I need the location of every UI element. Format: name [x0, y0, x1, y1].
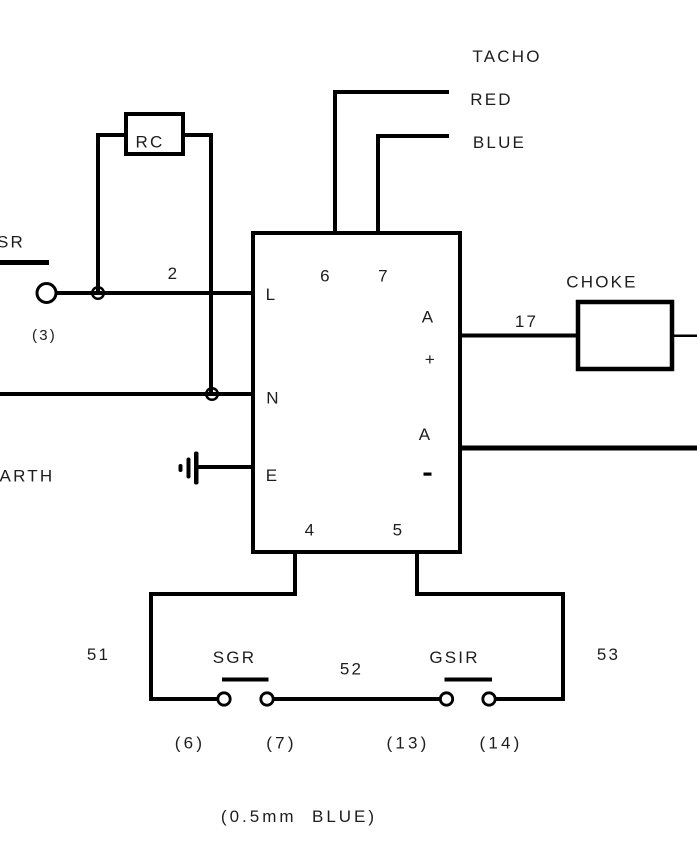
- svg-text:52: 52: [340, 660, 363, 679]
- svg-text:CHOKE: CHOKE: [566, 273, 637, 292]
- svg-text:17: 17: [515, 312, 538, 331]
- svg-text:5: 5: [393, 521, 405, 540]
- svg-text:(0.5mm BLUE): (0.5mm BLUE): [221, 807, 377, 826]
- svg-text:(7): (7): [266, 734, 296, 753]
- svg-text:BLUE: BLUE: [473, 133, 526, 152]
- svg-text:51: 51: [87, 645, 110, 664]
- svg-text:(14): (14): [479, 734, 522, 753]
- svg-text:TACHO: TACHO: [472, 47, 541, 66]
- svg-text:2: 2: [168, 264, 180, 283]
- svg-text:4: 4: [305, 521, 317, 540]
- svg-text:RED: RED: [470, 90, 513, 109]
- svg-text:(6): (6): [175, 734, 205, 753]
- svg-text:53: 53: [597, 645, 620, 664]
- svg-text:6: 6: [320, 267, 332, 286]
- svg-text:(3): (3): [32, 327, 57, 344]
- svg-text:RC: RC: [136, 133, 165, 152]
- svg-text:E: E: [266, 466, 280, 485]
- svg-text:7: 7: [378, 267, 390, 286]
- svg-text:L: L: [266, 285, 278, 304]
- svg-text:GSIR: GSIR: [429, 648, 479, 667]
- svg-text:(13): (13): [386, 734, 429, 753]
- svg-text:A: A: [419, 425, 433, 444]
- svg-text:EARTH: EARTH: [0, 467, 54, 486]
- svg-text:A: A: [422, 308, 436, 327]
- svg-text:N: N: [266, 389, 280, 408]
- svg-text:+: +: [425, 350, 437, 369]
- svg-text:SR: SR: [0, 233, 25, 252]
- svg-text:SGR: SGR: [213, 648, 256, 667]
